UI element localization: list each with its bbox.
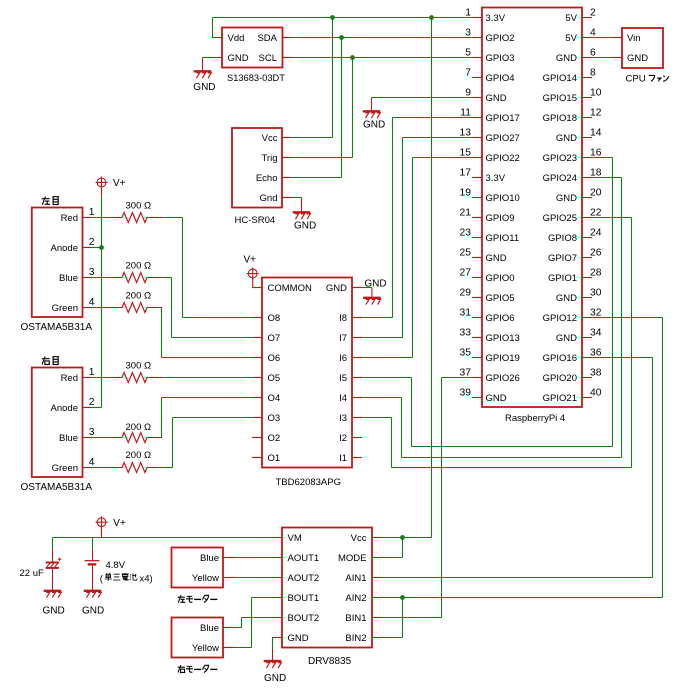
svg-text:GPIO25: GPIO25: [543, 213, 577, 224]
svg-text:Gnd: Gnd: [260, 193, 278, 204]
wire left eye Red to resistor: [92, 217, 113, 219]
svg-text:O2: O2: [268, 433, 281, 444]
svg-text:GPIO23: GPIO23: [543, 153, 577, 164]
svg-text:GPIO20: GPIO20: [543, 373, 577, 384]
svg-text:39: 39: [460, 388, 472, 399]
wire GPIO25 pin22 to TBD I3: [362, 218, 632, 468]
svg-text:15: 15: [460, 148, 472, 159]
svg-text:Blue: Blue: [59, 433, 78, 444]
svg-text:MODE: MODE: [338, 553, 367, 564]
svg-text:GPIO1: GPIO1: [548, 273, 577, 284]
wire GPIO24 pin18 to TBD I4: [362, 178, 622, 458]
wire 200ohm to TBD O7: [162, 278, 252, 338]
wire S13683 GND pin to ground: [203, 58, 213, 71]
wire battery to ground: [92, 565, 94, 590]
wire RPi pin4 5V to CPU fan Vin: [592, 37, 612, 39]
svg-text:GPIO17: GPIO17: [486, 113, 520, 124]
label right motor (migi motor): [178, 665, 218, 672]
svg-text:40: 40: [590, 388, 602, 399]
svg-text:16: 16: [590, 148, 602, 159]
svg-text:3: 3: [465, 28, 471, 39]
ground symbol at DRV8835: [264, 661, 287, 684]
svg-text:26: 26: [590, 248, 602, 259]
svg-text:GPIO0: GPIO0: [486, 273, 515, 284]
svg-text:22 uF: 22 uF: [20, 568, 44, 579]
svg-text:AIN1: AIN1: [345, 573, 366, 584]
svg-text:7: 7: [465, 68, 471, 79]
wire right eye anode stub link: [92, 407, 102, 409]
svg-text:SDA: SDA: [257, 33, 277, 44]
wire V+ stub to rail: [101, 527, 103, 538]
svg-text:Vin: Vin: [627, 33, 641, 44]
wire right eye Green to resistor: [92, 467, 113, 469]
svg-text:200 Ω: 200 Ω: [126, 450, 152, 461]
svg-text:30: 30: [590, 288, 602, 299]
svg-text:3.3V: 3.3V: [486, 13, 506, 24]
svg-text:I1: I1: [339, 453, 347, 464]
svg-text:GND: GND: [326, 283, 347, 294]
junction dot SCL/Trig tap: [350, 55, 355, 60]
svg-text:GND: GND: [556, 53, 577, 64]
label left eye (hidari-me): [42, 197, 58, 205]
wire 3.3V drop to HC-SR04 Vcc: [292, 18, 333, 138]
svg-text:1: 1: [89, 207, 95, 218]
svg-text:3.3V: 3.3V: [486, 173, 506, 184]
IC U5 DRV8835 motor driver: [272, 528, 382, 668]
svg-text:GND: GND: [486, 253, 507, 264]
svg-text:Red: Red: [61, 373, 78, 384]
wire right eye Red to resistor: [92, 377, 113, 379]
svg-text:O5: O5: [268, 373, 281, 384]
wire 3.3V vertical rail down to DRV8835 Vcc: [431, 18, 433, 538]
svg-text:GPIO24: GPIO24: [543, 173, 577, 184]
svg-text:SCL: SCL: [259, 53, 277, 64]
svg-text:1: 1: [465, 8, 471, 19]
svg-text:Yellow: Yellow: [192, 573, 219, 584]
svg-text:GPIO3: GPIO3: [486, 53, 515, 64]
ground symbol at RPi pin9: [363, 111, 386, 130]
wire left motor Blue to AOUT1: [234, 557, 272, 559]
svg-text:GPIO26: GPIO26: [486, 373, 520, 384]
wire Vdd riser: [212, 18, 214, 38]
svg-text:4: 4: [89, 457, 95, 468]
svg-text:Blue: Blue: [59, 273, 78, 284]
svg-text:22: 22: [590, 208, 602, 219]
svg-text:TBD62083APG: TBD62083APG: [276, 477, 341, 488]
svg-text:Vcc: Vcc: [262, 133, 278, 144]
power symbol V+ at battery rail: [96, 516, 126, 529]
svg-text:RaspberryPi 4: RaspberryPi 4: [505, 413, 565, 424]
svg-text:V+: V+: [113, 518, 126, 529]
wire net SCL GPIO3 horizontal: [292, 57, 472, 59]
power symbol V+ at TBD COMMON: [244, 254, 259, 279]
capacitor C1 22uF electrolytic: [46, 558, 62, 568]
svg-text:200 Ω: 200 Ω: [126, 261, 152, 272]
wire RPi pin9 GND to ground: [372, 98, 473, 111]
value label 22uF: [20, 568, 44, 579]
svg-text:2: 2: [590, 8, 596, 19]
resistor 200 ohm right eye green: [112, 450, 162, 473]
svg-text:I6: I6: [339, 353, 347, 364]
svg-text:36: 36: [590, 348, 602, 359]
svg-text:COMMON: COMMON: [268, 283, 312, 294]
svg-text:GPIO10: GPIO10: [486, 193, 520, 204]
svg-text:6: 6: [590, 48, 596, 59]
svg-text:I3: I3: [339, 413, 347, 424]
wire GPIO26 pin37 to DRV8835 BIN1: [382, 378, 472, 618]
svg-text:37: 37: [460, 368, 472, 379]
svg-text:GND: GND: [364, 279, 386, 290]
svg-text:Vdd: Vdd: [228, 33, 245, 44]
svg-text:5: 5: [465, 48, 471, 59]
svg-text:GND: GND: [486, 393, 507, 404]
resistor 200 ohm right eye blue: [112, 422, 162, 443]
svg-text:V+: V+: [244, 254, 257, 265]
svg-text:2: 2: [89, 237, 95, 248]
wire net SDA GPIO2 horizontal: [292, 37, 472, 39]
wire right motor Blue to BOUT2: [234, 618, 272, 628]
junction dot 3.3V/DRV8835 Vcc rail tap: [429, 15, 434, 20]
svg-text:AIN2: AIN2: [345, 593, 366, 604]
LED module right eye OSTAMA5B31A: [21, 368, 93, 494]
label right eye (migi-me): [42, 357, 58, 365]
svg-text:GPIO27: GPIO27: [486, 133, 520, 144]
svg-text:3: 3: [89, 427, 95, 438]
svg-text:GPIO9: GPIO9: [486, 213, 515, 224]
svg-text:38: 38: [590, 368, 602, 379]
svg-text:GPIO16: GPIO16: [543, 353, 577, 364]
svg-text:Anode: Anode: [51, 403, 78, 414]
svg-text:GPIO6: GPIO6: [486, 313, 515, 324]
svg-text:GND: GND: [288, 633, 309, 644]
svg-text:GND: GND: [228, 53, 249, 64]
wire 300ohm to TBD O8: [162, 218, 252, 318]
wire RPi pin6 GND to CPU fan GND: [592, 57, 612, 59]
wire GPIO12 pin32 to DRV8835 AIN2: [382, 318, 663, 598]
svg-text:11: 11: [460, 108, 471, 119]
wire V+ vertical through LED anodes: [101, 187, 103, 407]
svg-text:300 Ω: 300 Ω: [126, 201, 152, 212]
wire GPIO22 pin15 to TBD I6: [362, 158, 472, 358]
svg-text:200 Ω: 200 Ω: [126, 422, 152, 433]
svg-text:GND: GND: [82, 606, 104, 617]
svg-text:33: 33: [460, 328, 472, 339]
battery BT1 4.8V: [85, 561, 100, 565]
svg-text:GND: GND: [294, 220, 316, 231]
wire 200ohm to TBD O6: [162, 308, 253, 358]
IC U2 HC-SR04 ultrasonic sensor: [232, 128, 292, 226]
svg-text:O1: O1: [268, 453, 281, 464]
svg-text:I2: I2: [339, 433, 347, 444]
svg-text:OSTAMA5B31A: OSTAMA5B31A: [21, 482, 93, 493]
wire GPIO16 pin36 to DRV8835 AIN1: [382, 358, 653, 578]
svg-text:21: 21: [460, 208, 472, 219]
resistor 300 ohm left eye red: [112, 201, 162, 223]
wire GPIO17 pin11 to TBD I8: [362, 118, 472, 318]
wire left eye anode stub link: [92, 247, 102, 249]
junction dot left eye anode: [99, 245, 104, 250]
svg-text:O7: O7: [268, 333, 281, 344]
ground symbol at TBD62083APG: [363, 279, 387, 305]
wire AIN2 to BIN2 tie: [382, 598, 403, 638]
svg-text:I7: I7: [339, 333, 347, 344]
svg-text:28: 28: [590, 268, 602, 279]
svg-text:20: 20: [590, 188, 602, 199]
ground symbol at capacitor: [43, 591, 65, 617]
ground symbol at HC-SR04: [293, 212, 317, 231]
svg-text:O4: O4: [268, 393, 281, 404]
svg-text:BIN2: BIN2: [345, 633, 366, 644]
svg-text:GPIO8: GPIO8: [548, 233, 577, 244]
svg-text:GND: GND: [193, 82, 215, 93]
svg-text:GND: GND: [43, 606, 65, 617]
svg-text:O6: O6: [268, 353, 281, 364]
svg-text:10: 10: [590, 88, 602, 99]
svg-text:V+: V+: [113, 178, 126, 189]
svg-text:GND: GND: [556, 133, 577, 144]
svg-text:GND: GND: [627, 53, 648, 64]
svg-text:GPIO11: GPIO11: [486, 233, 520, 244]
svg-text:Vcc: Vcc: [351, 533, 367, 544]
junction dot Vcc/MODE tie: [400, 535, 405, 540]
svg-text:8: 8: [590, 68, 596, 79]
svg-text:CPU: CPU: [626, 74, 646, 85]
svg-text:GPIO21: GPIO21: [543, 393, 577, 404]
svg-text:1: 1: [89, 367, 95, 378]
svg-text:BOUT1: BOUT1: [288, 593, 320, 604]
pin numbers left eye: [89, 207, 95, 308]
wire Echo drop from SDA net: [292, 38, 342, 178]
svg-text:5V: 5V: [565, 33, 577, 44]
wire 200ohm to TBD O4: [162, 398, 253, 438]
wire GPIO27 pin13 to TBD I7: [362, 138, 472, 338]
resistor 200 ohm left eye green: [112, 291, 162, 313]
svg-text:13: 13: [460, 128, 472, 139]
svg-text:GND: GND: [264, 673, 286, 684]
svg-text:3: 3: [89, 267, 95, 278]
svg-text:BIN1: BIN1: [345, 613, 366, 624]
svg-text:VM: VM: [288, 533, 302, 544]
svg-text:Yellow: Yellow: [192, 643, 219, 654]
svg-text:32: 32: [590, 308, 602, 319]
power symbol V+ for LED anodes: [96, 177, 126, 190]
wire net V+ battery rail: [53, 537, 273, 539]
wire capacitor to ground: [52, 569, 54, 590]
svg-text:(: (: [100, 573, 104, 584]
svg-text:S13683-03DT: S13683-03DT: [227, 73, 285, 83]
IC U3 RaspberryPi 4 40-pin header: [472, 8, 592, 425]
wire 300ohm to TBD O5: [162, 377, 252, 379]
svg-text:Anode: Anode: [51, 243, 78, 254]
svg-text:27: 27: [460, 268, 472, 279]
svg-text:O3: O3: [268, 413, 281, 424]
svg-text:GPIO14: GPIO14: [543, 73, 577, 84]
svg-text:14: 14: [590, 128, 602, 139]
svg-text:5V: 5V: [565, 13, 577, 24]
svg-text:GPIO19: GPIO19: [486, 353, 520, 364]
svg-text:AOUT1: AOUT1: [288, 553, 320, 564]
ground symbol at S13683: [193, 71, 215, 93]
svg-text:300 Ω: 300 Ω: [126, 361, 152, 372]
label CPU fan (CPU fan in Japanese): [626, 74, 669, 85]
svg-text:23: 23: [460, 228, 472, 239]
wire net 3.3V top rail from Vdd elbow to RPi pin1: [213, 17, 473, 19]
wire right motor Yellow to BOUT1: [234, 598, 272, 648]
svg-text:GPIO18: GPIO18: [543, 113, 577, 124]
svg-text:AOUT2: AOUT2: [288, 573, 320, 584]
wire HC-SR04 Gnd to ground: [292, 198, 302, 212]
svg-text:OSTAMA5B31A: OSTAMA5B31A: [21, 322, 93, 333]
svg-text:19: 19: [460, 188, 472, 199]
svg-text:HC-SR04: HC-SR04: [235, 215, 276, 226]
connector CPU fan: [612, 28, 663, 68]
svg-text:BOUT2: BOUT2: [288, 613, 320, 624]
svg-text:GND: GND: [486, 93, 507, 104]
svg-text:I5: I5: [339, 373, 347, 384]
svg-text:4: 4: [89, 297, 95, 308]
svg-text:GPIO2: GPIO2: [486, 33, 515, 44]
svg-text:GPIO13: GPIO13: [486, 333, 520, 344]
svg-text:Green: Green: [52, 303, 78, 314]
svg-text:GPIO5: GPIO5: [486, 293, 515, 304]
svg-text:Echo: Echo: [256, 173, 278, 184]
pin numbers right eye: [89, 367, 95, 468]
svg-text:24: 24: [590, 228, 602, 239]
IC U4 TBD62083APG transistor array: [252, 278, 362, 489]
svg-text:18: 18: [590, 168, 602, 179]
svg-text:GPIO7: GPIO7: [548, 253, 577, 264]
svg-text:I4: I4: [339, 393, 347, 404]
svg-text:25: 25: [460, 248, 472, 259]
wire 200ohm to TBD O3: [162, 418, 252, 468]
wire left motor Yellow to AOUT2: [234, 577, 272, 579]
svg-text:29: 29: [460, 288, 472, 299]
svg-text:4: 4: [590, 28, 596, 39]
svg-text:I8: I8: [339, 313, 347, 324]
ground symbol at battery: [82, 591, 104, 617]
svg-text:GND: GND: [363, 119, 385, 130]
resistor 200 ohm left eye blue: [112, 261, 162, 283]
wire V+ to COMMON: [253, 278, 257, 287]
svg-text:2: 2: [89, 397, 95, 408]
svg-text:34: 34: [590, 328, 602, 339]
wire left eye Blue to resistor: [92, 277, 113, 279]
svg-text:200 Ω: 200 Ω: [126, 291, 152, 302]
svg-text:GND: GND: [556, 193, 577, 204]
wire DRV8835 Vcc to 3.3V rail: [382, 537, 432, 539]
wire Trig drop from SCL net: [292, 58, 353, 158]
junction dot AIN2/BIN2 tie: [400, 595, 405, 600]
value label 4.8V battery: [100, 560, 153, 585]
pin numbers RPi left (odd): [460, 8, 472, 399]
IC U1 S13683-03DT color sensor: [212, 28, 293, 84]
label left motor (hidari motor): [178, 595, 218, 602]
junction dot SDA/Echo tap: [339, 35, 344, 40]
svg-text:DRV8835: DRV8835: [308, 656, 352, 667]
svg-text:x4): x4): [140, 573, 153, 584]
svg-text:GPIO12: GPIO12: [543, 313, 577, 324]
svg-text:12: 12: [590, 108, 602, 119]
svg-text:GND: GND: [556, 293, 577, 304]
svg-text:Blue: Blue: [200, 553, 219, 564]
svg-text:17: 17: [460, 168, 472, 179]
junction dot 3.3V/HC-SR04 Vcc tap: [330, 15, 335, 20]
wire right eye Blue to resistor: [92, 437, 113, 439]
svg-text:GPIO22: GPIO22: [486, 153, 520, 164]
LED module left eye OSTAMA5B31A: [21, 208, 93, 334]
svg-text:O8: O8: [268, 313, 281, 324]
svg-text:31: 31: [460, 308, 472, 319]
pin numbers RPi right (even): [590, 8, 602, 399]
wire MODE to Vcc tie: [382, 538, 403, 558]
wire left eye Green to resistor: [92, 307, 113, 309]
wire GPIO23 pin16 to TBD I5: [362, 158, 613, 447]
svg-text:Red: Red: [61, 213, 78, 224]
svg-text:9: 9: [465, 88, 471, 99]
wire capacitor riser: [52, 538, 54, 562]
svg-text:Green: Green: [52, 463, 78, 474]
resistor 300 ohm right eye red: [112, 361, 162, 383]
connector left motor: [172, 548, 235, 588]
svg-text:35: 35: [460, 348, 472, 359]
svg-text:GND: GND: [556, 333, 577, 344]
svg-text:GPIO4: GPIO4: [486, 73, 515, 84]
svg-text:Trig: Trig: [261, 153, 277, 164]
wire TBD GND to ground: [362, 288, 372, 297]
connector right motor: [172, 618, 235, 658]
svg-text:GPIO15: GPIO15: [543, 93, 577, 104]
wire DRV8835 GND to ground: [272, 638, 274, 661]
wire battery riser: [92, 538, 94, 560]
svg-text:4.8V: 4.8V: [106, 560, 126, 571]
svg-text:Blue: Blue: [200, 623, 219, 634]
